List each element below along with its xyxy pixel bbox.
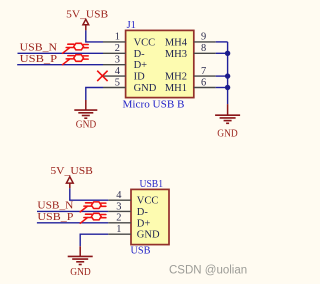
wire USB_N to pin 3 (USB1) xyxy=(37,210,108,212)
svg-text:MH2: MH2 xyxy=(165,72,187,83)
pin name MH4 xyxy=(165,37,188,48)
svg-text:USB_N: USB_N xyxy=(20,43,58,54)
pin name D- xyxy=(134,49,146,60)
pin name MH3 xyxy=(165,49,187,60)
svg-text:USB_N: USB_N xyxy=(37,200,73,211)
svg-text:GND: GND xyxy=(76,120,97,131)
net label USB_P (top) xyxy=(20,54,58,65)
svg-text:5: 5 xyxy=(115,77,120,88)
pin 9 of J1 xyxy=(194,32,216,43)
wire pin 6 to bus xyxy=(216,87,228,89)
no-ERC marker on pin 4 xyxy=(97,71,107,81)
svg-text:4: 4 xyxy=(116,190,122,201)
junction at pin 6 xyxy=(225,85,230,90)
pin name GND xyxy=(134,83,157,94)
net label USB_N (bottom) xyxy=(37,200,73,211)
net label USB_N (top) xyxy=(20,43,58,54)
pin 8 of J1 xyxy=(194,43,216,54)
svg-text:D-: D- xyxy=(134,49,146,60)
component J1 body xyxy=(126,30,194,97)
svg-text:6: 6 xyxy=(201,77,206,88)
pin 6 of J1 xyxy=(194,77,216,88)
svg-text:USB: USB xyxy=(131,246,151,257)
watermark CSDN @uolian xyxy=(169,265,247,277)
svg-text:GND: GND xyxy=(70,267,91,278)
svg-text:J1: J1 xyxy=(127,20,136,31)
pin 5 of J1 xyxy=(103,77,126,88)
pin name D- (USB1) xyxy=(137,207,149,218)
pin 4 of J1 xyxy=(103,66,126,77)
wire pin 9 to bus xyxy=(216,41,228,43)
wire 5V_USB to pin 4 (USB1) xyxy=(70,188,108,200)
ground GND (top right) xyxy=(215,104,240,139)
power port 5V_USB bottom: symbol xyxy=(66,177,73,189)
svg-text:MH1: MH1 xyxy=(165,83,187,94)
svg-text:D+: D+ xyxy=(137,218,151,229)
differential pair marker on USB_N (top) xyxy=(63,43,89,53)
wire 5V_USB to pin 1 xyxy=(86,30,103,42)
svg-text:GND: GND xyxy=(217,128,238,139)
pin 1 of USB1 xyxy=(108,224,131,235)
pin 3 of J1 xyxy=(103,55,126,66)
svg-text:4: 4 xyxy=(115,66,121,77)
pin name D+ (USB1) xyxy=(137,218,151,229)
comment Micro USB B xyxy=(123,99,185,111)
net label USB_P (bottom) xyxy=(37,212,74,223)
pin name ID xyxy=(134,72,145,83)
svg-text:5V_USB: 5V_USB xyxy=(66,8,108,20)
wire USB_N to pin 2 xyxy=(18,52,104,54)
svg-text:3: 3 xyxy=(116,201,121,212)
pin 4 of USB1 xyxy=(108,190,131,201)
pin name GND (USB1) xyxy=(137,230,160,241)
svg-text:MH3: MH3 xyxy=(165,49,187,60)
svg-text:VCC: VCC xyxy=(137,196,159,207)
svg-text:GND: GND xyxy=(137,230,160,241)
pin 2 of USB1 xyxy=(108,213,131,224)
wire pin 7 to bus xyxy=(216,75,228,77)
svg-text:D-: D- xyxy=(137,207,149,218)
power port 5V_USB top: label xyxy=(66,8,108,20)
pin 7 of J1 xyxy=(194,66,216,77)
differential pair marker on USB_P (top) xyxy=(63,55,89,65)
wire pin 8 to bus xyxy=(216,52,228,54)
svg-text:2: 2 xyxy=(115,43,120,54)
pin name MH2 xyxy=(165,72,187,83)
svg-text:USB_P: USB_P xyxy=(20,54,58,65)
svg-text:2: 2 xyxy=(116,213,121,224)
svg-text:USB1: USB1 xyxy=(140,179,164,190)
component USB1 body xyxy=(131,189,169,244)
svg-text:ID: ID xyxy=(134,72,145,83)
wire USB_P to pin 2 (USB1) xyxy=(37,222,108,224)
pin name VCC (USB1) xyxy=(137,196,159,207)
wire bus vertical (right) xyxy=(227,42,229,104)
junction at pin 8 xyxy=(225,51,230,56)
comment USB xyxy=(131,246,151,257)
svg-text:8: 8 xyxy=(201,43,206,54)
svg-text:5V_USB: 5V_USB xyxy=(50,165,92,177)
pin 2 of J1 xyxy=(103,43,126,54)
designator USB1 xyxy=(140,179,164,190)
svg-text:USB_P: USB_P xyxy=(37,212,74,223)
pin 1 of J1 xyxy=(103,32,126,43)
junction at pin 7 xyxy=(225,73,230,78)
svg-text:VCC: VCC xyxy=(134,37,156,48)
ground GND (top left) xyxy=(74,100,97,131)
svg-text:CSDN @uolian: CSDN @uolian xyxy=(169,265,247,277)
wire pin 5 to GND (top left) xyxy=(86,88,103,101)
svg-text:9: 9 xyxy=(201,32,206,43)
power port 5V_USB top: symbol xyxy=(83,19,89,30)
designator J1 xyxy=(127,20,136,31)
wire pin 1 (USB1) to GND (bottom) xyxy=(80,234,108,246)
ground GND (bottom) xyxy=(68,246,93,278)
svg-text:Micro USB B: Micro USB B xyxy=(123,99,185,111)
svg-text:3: 3 xyxy=(115,55,120,66)
svg-text:7: 7 xyxy=(201,66,206,77)
pin name MH1 xyxy=(165,83,187,94)
power port 5V_USB bottom: label xyxy=(50,165,92,177)
svg-text:MH4: MH4 xyxy=(165,37,188,48)
wire USB_P to pin 3 xyxy=(17,64,103,66)
svg-text:GND: GND xyxy=(134,83,157,94)
svg-text:1: 1 xyxy=(116,224,121,235)
svg-text:D+: D+ xyxy=(134,60,148,71)
pin 3 of USB1 xyxy=(108,201,131,212)
differential pair marker on USB_P (bottom) xyxy=(80,213,106,223)
pin name VCC xyxy=(134,37,156,48)
svg-text:1: 1 xyxy=(115,32,120,43)
differential pair marker on USB_N (bottom) xyxy=(80,202,106,212)
pin name D+ xyxy=(134,60,148,71)
